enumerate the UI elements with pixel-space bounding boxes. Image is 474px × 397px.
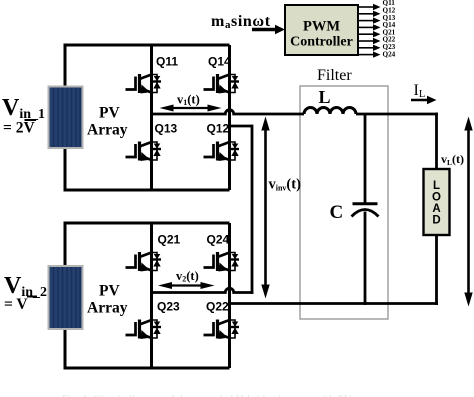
gate signal labels Q11..Q24 bbox=[383, 0, 396, 58]
PV array panel 2 bbox=[48, 265, 84, 330]
wire load bottom riser bbox=[435, 235, 438, 305]
svg-text:PWM: PWM bbox=[303, 19, 340, 35]
svg-text:C: C bbox=[330, 202, 344, 223]
bridge 2 top rail wire bbox=[65, 222, 230, 225]
bridge 2 left leg wire bbox=[150, 223, 153, 368]
svg-text:Q13: Q13 bbox=[155, 122, 178, 136]
bridge 1 top rail wire bbox=[65, 44, 230, 47]
svg-text:Q14: Q14 bbox=[208, 55, 231, 69]
svg-text:D: D bbox=[432, 215, 440, 227]
svg-text:Fig. 1. Circuit diagram of the: Fig. 1. Circuit diagram of the cascaded … bbox=[62, 394, 381, 397]
svg-text:Q24: Q24 bbox=[207, 233, 230, 247]
bridge 2 bottom rail wire bbox=[64, 367, 230, 370]
gate signal arrows Q11..Q24 bbox=[359, 7, 374, 55]
transistor Q23 bbox=[126, 320, 162, 340]
capacitor C branch bottom wire bbox=[364, 212, 367, 306]
svg-text:Array: Array bbox=[87, 300, 128, 317]
svg-text:vL(t): vL(t) bbox=[441, 152, 464, 167]
svg-text:Q23: Q23 bbox=[157, 300, 180, 314]
wire riser B1 to A2 bbox=[251, 125, 254, 294]
wire node A1 output with hop over right leg bbox=[152, 110, 305, 114]
wire corner down to load top bbox=[435, 113, 438, 169]
wire node B1 to riser bbox=[230, 125, 253, 128]
transistor Q13 bbox=[126, 142, 162, 162]
PV array panel 1 bbox=[48, 86, 84, 150]
arrow v_inv double-headed vertical bbox=[261, 117, 269, 299]
bridge 2 left wire lower bbox=[64, 328, 67, 370]
inductor L coil bbox=[304, 108, 356, 115]
wire inductor to load corner bbox=[356, 113, 438, 116]
svg-text:= V: = V bbox=[4, 296, 28, 313]
svg-text:Q12: Q12 bbox=[207, 122, 230, 136]
label LOAD bbox=[432, 180, 441, 227]
transistor Q14 bbox=[204, 74, 240, 94]
svg-text:Array: Array bbox=[87, 122, 128, 139]
capacitor C branch top wire bbox=[364, 114, 367, 203]
bridge 1 bottom rail wire bbox=[64, 189, 230, 192]
svg-text:Q11: Q11 bbox=[156, 55, 178, 69]
bridge 2 right leg wire bbox=[228, 223, 231, 368]
overline of V bbox=[27, 296, 37, 298]
arrow v1 double-headed bbox=[160, 105, 222, 112]
svg-text:L: L bbox=[319, 87, 331, 107]
arrow vL double-headed vertical bbox=[464, 117, 472, 307]
svg-text:PV: PV bbox=[99, 283, 120, 300]
transistor Q22 bbox=[204, 320, 240, 340]
arrow IL bbox=[411, 96, 437, 105]
bridge 1 left leg wire bbox=[150, 45, 153, 190]
bridge 2 left wire upper bbox=[64, 222, 67, 269]
transistor Q21 bbox=[126, 252, 162, 272]
transistor Q12 bbox=[204, 142, 240, 162]
overline of V in 2V bbox=[25, 119, 37, 121]
arrow v2 double-headed bbox=[158, 282, 215, 289]
svg-text:v2(t): v2(t) bbox=[176, 269, 199, 284]
svg-text:v1(t): v1(t) bbox=[177, 93, 200, 108]
transistor Q24 bbox=[204, 252, 240, 272]
svg-text:Q21: Q21 bbox=[158, 233, 181, 247]
svg-text:Q24: Q24 bbox=[383, 50, 396, 58]
bridge 1 left wire upper bbox=[64, 44, 67, 89]
svg-text:= 2V: = 2V bbox=[3, 120, 35, 137]
svg-text:O: O bbox=[432, 192, 441, 204]
bridge 1 left wire lower bbox=[64, 147, 67, 192]
svg-text:A: A bbox=[432, 203, 440, 215]
arrow modulation input bbox=[252, 25, 285, 35]
svg-text:PV: PV bbox=[99, 105, 120, 122]
wire node A2 with hop over right leg bbox=[152, 288, 254, 292]
svg-text:Filter: Filter bbox=[317, 67, 352, 84]
load box bbox=[424, 169, 450, 235]
bridge 1 right leg wire bbox=[228, 45, 231, 190]
transistor Q11 bbox=[126, 74, 162, 94]
svg-text:Q22: Q22 bbox=[206, 300, 229, 314]
PWM controller box U1 bbox=[285, 5, 358, 55]
svg-text:Controller: Controller bbox=[290, 35, 353, 50]
wire node B2 bottom output rail bbox=[230, 302, 439, 305]
svg-text:L: L bbox=[433, 180, 440, 192]
capacitor C top plate bbox=[353, 202, 378, 205]
filter box outline bbox=[300, 86, 388, 319]
capacitor C curved plate bbox=[352, 210, 379, 217]
